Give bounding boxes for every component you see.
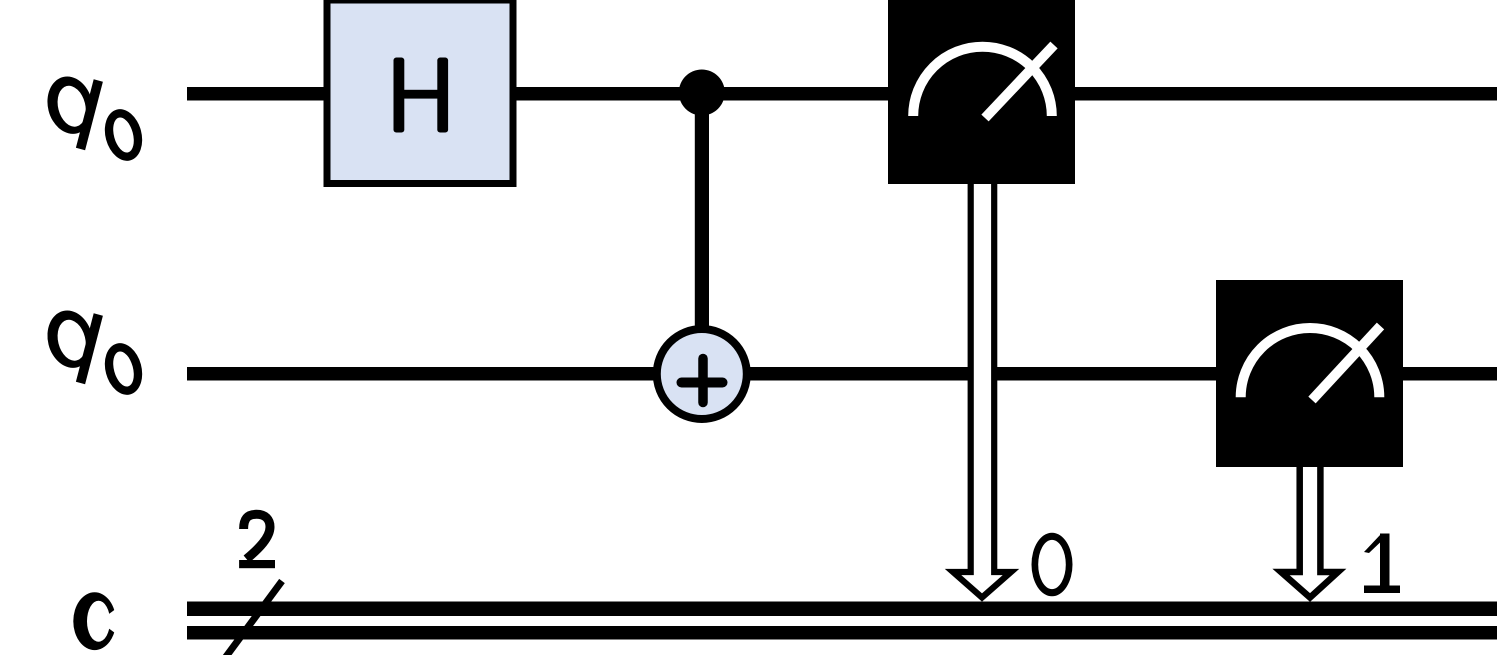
measurement M1 box bbox=[1216, 280, 1403, 467]
classical bit label 0 bbox=[1032, 533, 1073, 597]
cnot target circle bbox=[657, 329, 747, 419]
classical wire c (double line, bottom) bbox=[187, 626, 1497, 640]
hadamard gate H box bbox=[327, 0, 513, 184]
classical bit label 1 bbox=[1364, 534, 1400, 594]
classical register label c bbox=[73, 592, 130, 650]
wire q1 (second qubit wire) bbox=[187, 367, 1497, 381]
measurement M0 meter arc bbox=[913, 47, 1052, 116]
cnot target plus bbox=[682, 359, 723, 403]
cnot control dot bbox=[679, 70, 725, 116]
qubit label q1 (shown as q0) bbox=[42, 306, 148, 399]
classical wire c (double line, top) bbox=[187, 602, 1497, 617]
qubit label q0 (top) bbox=[42, 72, 148, 165]
wire q0 (top qubit wire) bbox=[187, 87, 1497, 101]
measurement M0 needle bbox=[985, 45, 1054, 118]
measurement M0 arrow to classical wire bbox=[953, 184, 1011, 598]
classical bundle size label 2 bbox=[239, 514, 275, 568]
cnot vertical wire bbox=[695, 95, 709, 330]
measurement M0 box bbox=[888, 0, 1075, 184]
measurement M1 arrow to classical wire bbox=[1281, 467, 1338, 598]
measurement M1 meter arc bbox=[1241, 328, 1380, 397]
measurement M1 needle bbox=[1312, 326, 1381, 400]
classical bundle slash bbox=[225, 581, 282, 655]
hadamard gate letter H bbox=[394, 58, 449, 133]
